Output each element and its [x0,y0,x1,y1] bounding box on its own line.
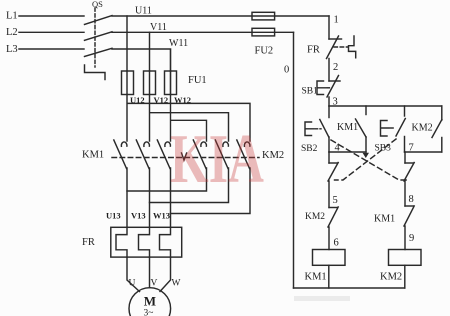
svg-text:L1: L1 [6,11,18,22]
node W12 [174,95,191,105]
coil KM2 [380,250,421,283]
interlock dashed SB3 to SB3-NC [335,139,397,180]
svg-text:KM1: KM1 [305,272,327,283]
svg-text:V13: V13 [131,211,146,221]
wire W to motor [160,257,171,291]
linkage arrow [182,153,187,160]
relay contact FR (NC) [307,36,356,59]
wire node8 [404,181,406,206]
contactor KM1 main contacts [82,140,170,169]
svg-text:M: M [144,294,156,309]
svg-text:2: 2 [333,62,338,73]
wire L3 [19,48,84,50]
svg-text:9: 9 [409,233,414,244]
svg-text:SB2: SB2 [301,144,318,154]
contact KM1 interlock (NC) [374,206,414,226]
interlock dashed SB2 to SB2-NC [331,140,407,180]
node W11 [169,38,188,49]
node L1 [6,11,18,22]
svg-text:SB1: SB1 [302,87,319,97]
svg-text:V11: V11 [150,22,167,33]
svg-text:L2: L2 [6,27,18,38]
node 9 [409,233,414,244]
wire KM2 pole1 output to U13 [127,168,207,191]
svg-text:KM2: KM2 [305,212,325,222]
wire node9 [404,226,406,250]
node V11 [150,22,167,33]
wire KM2 pole3 output to W13 [171,168,251,214]
svg-text:KM2: KM2 [262,150,284,161]
contactor KM2 main contacts [193,140,284,169]
fuse FU1 [122,71,207,95]
switch QS [85,0,113,80]
svg-text:FR: FR [82,237,95,248]
svg-text:FU2: FU2 [255,46,274,57]
node L2 [6,27,18,38]
wire U12 feed to KM2 pole3 [127,95,250,142]
contact KM2 interlock (NC) [305,207,338,227]
wire U11 [112,15,329,17]
junction arrow node 4 [363,153,370,158]
svg-text:6: 6 [334,238,339,249]
node 6 [334,238,339,249]
button SB3 (NO start rev) [375,106,406,154]
wire KM2 coil to rail [404,265,406,288]
contact KM2 aux (NO holding) [412,106,442,152]
wire node3 [328,97,330,106]
svg-text:U11: U11 [135,6,152,17]
coil KM1 [305,250,346,283]
wire 0 rail [293,32,295,288]
wire node5 [328,181,330,208]
wire L1 [19,15,84,17]
wire V to motor [149,257,151,288]
node 8 [409,194,414,205]
wire KM1 coil to rail [328,265,330,288]
node W [172,279,181,289]
node U12 [130,95,145,105]
button SB2 NC contact (right branch) [404,152,414,181]
linkage dashed KM1-KM2 [112,157,259,159]
button SB3 NC contact (left branch) [328,152,338,181]
svg-text:5: 5 [333,195,338,206]
node 7 [409,143,414,154]
node W13 [153,211,170,221]
svg-text:QS: QS [92,0,103,9]
node V13 [131,211,146,221]
svg-text:0: 0 [284,65,289,76]
svg-text:KM1: KM1 [374,214,395,225]
svg-text:3~: 3~ [144,309,154,316]
wire U to motor [127,257,140,291]
svg-text:FU1: FU1 [188,75,207,86]
wire node6 [328,227,330,250]
watermark KIA [170,121,264,198]
wire W11 [112,49,171,71]
wire KM2 pole2 output to V13 [150,168,229,203]
button SB1 (NC stop) [302,76,341,98]
svg-text:1: 1 [334,15,339,26]
fuse FU2 [252,12,275,56]
svg-text:KM2: KM2 [412,123,433,134]
svg-text:FR: FR [307,45,320,56]
motor M [129,288,171,316]
wire node2 [328,59,330,82]
node V [151,279,158,289]
node 4 [335,143,341,154]
relay FR heater box [82,227,182,257]
node U [129,279,136,289]
svg-text:8: 8 [409,194,414,205]
svg-text:U: U [129,279,136,289]
node U11 [135,6,152,17]
svg-text:KM1: KM1 [337,122,358,133]
svg-text:W: W [172,279,181,289]
svg-text:W11: W11 [169,38,188,49]
wire W12 feed to KM2 pole1 [171,95,207,142]
node 5 [333,195,338,206]
wire V12 feed to KM2 pole2 [150,95,229,142]
node U13 [106,211,121,221]
svg-text:KM2: KM2 [380,272,402,283]
wire KM1 outputs [127,168,171,227]
svg-text:KM1: KM1 [82,150,104,161]
wire L2 [19,31,84,33]
svg-text:W13: W13 [153,211,170,221]
button SB2 (NO start fwd) [301,106,329,154]
contact KM1 aux (NO holding) [337,106,366,152]
svg-text:U13: U13 [106,211,121,221]
node O [284,65,289,76]
node V12 [154,95,169,105]
svg-text:L3: L3 [6,44,18,55]
wire node1 [328,16,330,39]
wire node4 [329,151,366,153]
node 1 [334,15,339,26]
wire control rail [329,105,442,107]
wire node7 [405,151,442,153]
node L3 [6,44,18,55]
wire bottom rail [294,287,405,289]
scan artifact [294,296,350,301]
wire V11 [112,31,294,33]
svg-text:KIA: KIA [170,121,264,198]
node 2 [333,62,338,73]
svg-text:V: V [151,279,158,289]
node 3 [333,97,338,108]
